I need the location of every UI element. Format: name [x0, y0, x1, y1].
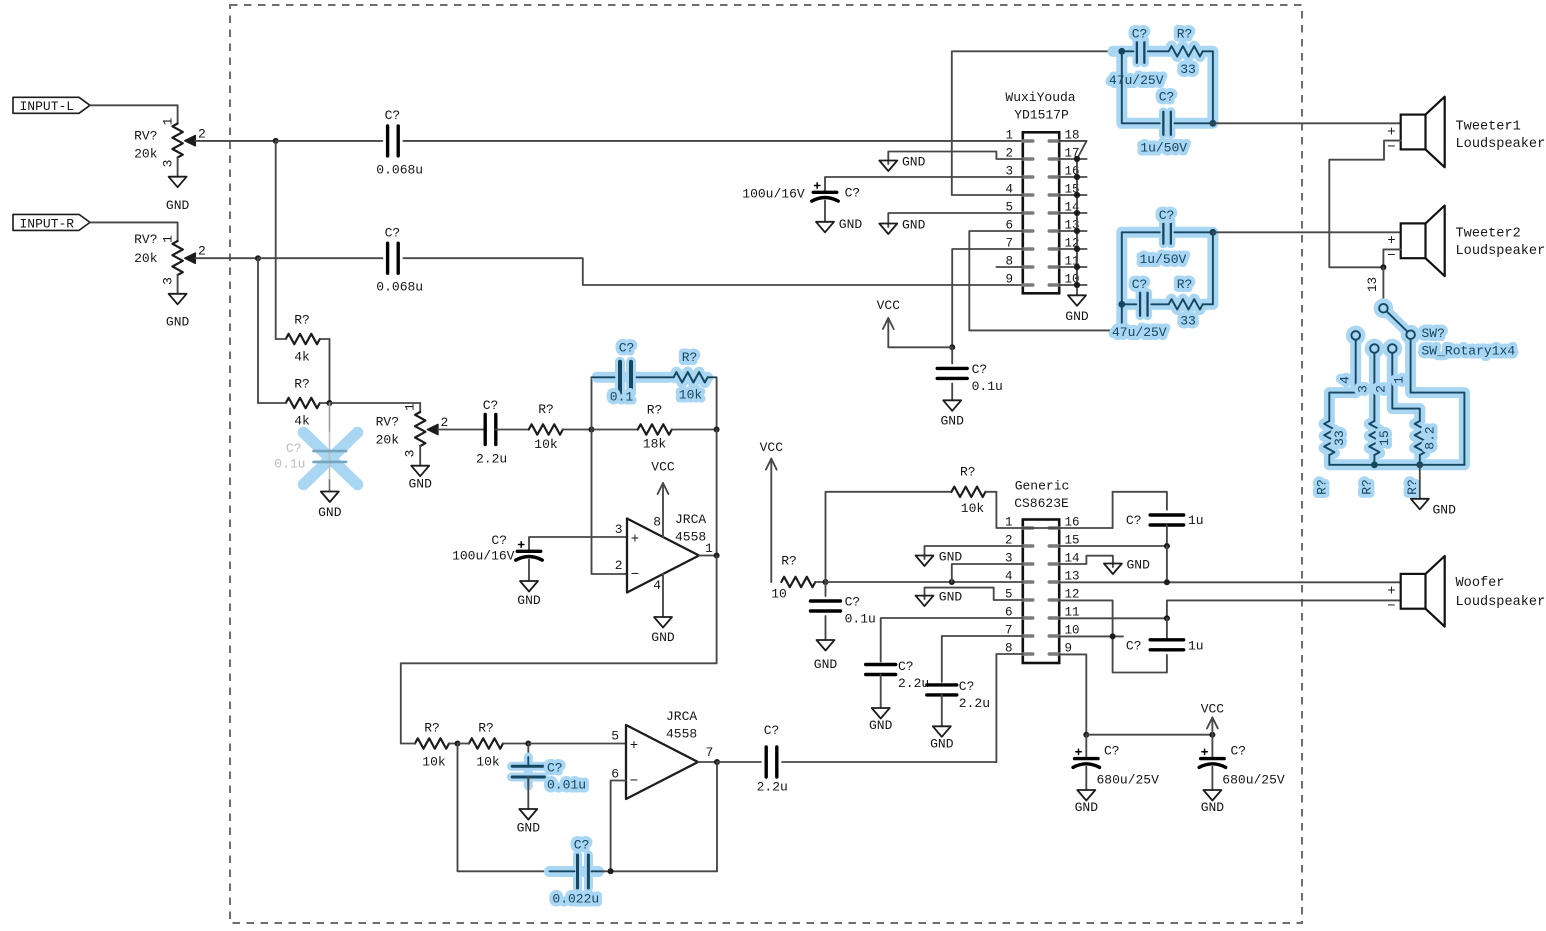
svg-text:1u/50V: 1u/50V — [1140, 141, 1187, 156]
junction C17/pin11 — [1164, 615, 1170, 621]
svg-text:10: 10 — [1065, 623, 1080, 637]
potentiometer RV2 20k (right volume) — [177, 222, 179, 241]
svg-text:GND: GND — [902, 155, 926, 170]
svg-text:+: + — [1387, 584, 1395, 600]
U2 pin 7 wire to VCC node — [952, 249, 1023, 347]
junction switch bus R10 — [1416, 461, 1423, 468]
svg-text:VCC: VCC — [760, 440, 784, 455]
capacitor C19 680u/25V — [1211, 735, 1213, 759]
svg-text:C?: C? — [1231, 743, 1247, 758]
U1A pin 8 to VCC — [662, 483, 664, 537]
capacitor C4 2.2u — [484, 415, 487, 445]
wire N2 to Tweeter2 — [1213, 231, 1401, 233]
U3 pin 2 wire to ground — [925, 546, 1023, 559]
wire U1B output to node — [698, 761, 717, 763]
svg-text:R?: R? — [960, 464, 976, 479]
wire input node down to U1A pin 2 — [592, 430, 628, 575]
svg-text:C?: C? — [764, 723, 780, 738]
wire R12 to U3 pin 1 — [996, 492, 1022, 528]
switch SW1 SW_Rotary1x4 (highlighted) — [1351, 304, 1415, 353]
U3 pin 10 stub — [1059, 635, 1123, 637]
loudspeaker LS3 Woofer — [1401, 574, 1426, 609]
wire pin15 node down to woofer node — [1166, 546, 1168, 582]
svg-text:INPUT-R: INPUT-R — [20, 216, 75, 231]
U3 pin 15 wire — [1059, 545, 1167, 547]
svg-text:C?: C? — [483, 398, 499, 413]
svg-text:33: 33 — [1332, 430, 1347, 446]
ground at RV1 pin 3 — [169, 177, 187, 188]
svg-text:R?: R? — [478, 720, 494, 735]
svg-text:4558: 4558 — [675, 529, 706, 544]
svg-text:13: 13 — [1065, 569, 1080, 583]
wire switch bus to ground — [1419, 465, 1421, 499]
ground under switch bus — [1411, 499, 1429, 510]
svg-text:10k: 10k — [534, 437, 558, 452]
svg-text:4: 4 — [1338, 376, 1353, 384]
svg-text:R?: R? — [682, 350, 698, 365]
wire node L down to R1 — [275, 141, 277, 339]
svg-text:GND: GND — [408, 477, 432, 492]
svg-text:GND: GND — [939, 550, 963, 565]
svg-text:4k: 4k — [294, 413, 310, 428]
svg-text:1: 1 — [403, 403, 418, 411]
svg-text:GND: GND — [1201, 800, 1225, 815]
wire woofer minus corner — [1167, 600, 1401, 618]
loudspeaker LS2 Tweeter2 — [1401, 223, 1426, 258]
ground at U3 pin 5 — [916, 596, 934, 607]
junction C16/pin15 — [1164, 543, 1170, 549]
svg-text:2: 2 — [1373, 385, 1388, 393]
svg-text:VCC: VCC — [877, 298, 901, 313]
capacitor C20 0.01u (highlighted) — [527, 744, 529, 762]
wire supply rail — [1086, 734, 1212, 736]
svg-text:100u/16V: 100u/16V — [742, 186, 805, 201]
U3 left pins 1-8 — [1023, 526, 1033, 529]
resistor R14 10k — [469, 738, 503, 748]
svg-text:100u/16V: 100u/16V — [452, 548, 515, 563]
junction N1 output (highlighted) — [1210, 120, 1217, 127]
svg-text:680u/25V: 680u/25V — [1097, 772, 1160, 787]
svg-text:C?: C? — [385, 108, 401, 123]
U2 left pins 1-9 — [1023, 139, 1033, 142]
U2 pin 8 stub (unconnected) — [996, 266, 1022, 268]
U2 right pins 18-10 — [1049, 283, 1059, 286]
wire C2 to U2 pin 9 — [403, 258, 1022, 285]
svg-text:7: 7 — [706, 745, 714, 760]
svg-text:1u: 1u — [1188, 513, 1204, 528]
svg-text:2.2u: 2.2u — [959, 696, 990, 711]
svg-text:Generic: Generic — [1015, 479, 1070, 494]
svg-text:−: − — [630, 774, 638, 790]
wire junction to rotary switch pin 13 — [1382, 267, 1384, 304]
svg-text:GND: GND — [869, 718, 893, 733]
svg-text:10k: 10k — [422, 755, 446, 770]
junction tweeter returns — [1380, 264, 1386, 270]
svg-text:R?: R? — [1177, 27, 1193, 42]
potentiometer RV3 20k (sub level) — [419, 403, 421, 412]
svg-text:−: − — [1387, 248, 1395, 264]
wire C8 to ground — [951, 383, 953, 400]
resistor R6 33 (highlighted) — [1169, 46, 1203, 56]
svg-text:GND: GND — [318, 505, 342, 520]
svg-text:18k: 18k — [643, 437, 667, 452]
svg-text:1: 1 — [161, 235, 176, 243]
svg-text:Woofer: Woofer — [1456, 576, 1505, 591]
U3 pin 9 wire down to supply rail — [1059, 654, 1086, 734]
svg-text:C?: C? — [1126, 639, 1142, 654]
svg-text:0.1u: 0.1u — [845, 611, 876, 626]
junction N2 bottom left (highlighted) — [1118, 301, 1125, 308]
capacitor C18 680u/25V — [1085, 735, 1087, 759]
wire N1 to Tweeter1 — [1213, 122, 1401, 124]
wire R14 node to U1B pin 5 — [528, 743, 626, 745]
wire U1A output to feedback node — [699, 555, 717, 557]
svg-text:0.01u: 0.01u — [547, 778, 586, 793]
feedback highlight halo — [597, 372, 668, 383]
svg-text:Loudspeaker: Loudspeaker — [1456, 244, 1546, 259]
svg-text:10k: 10k — [961, 501, 985, 516]
wire Tweeter2 negative to junction — [1383, 249, 1400, 267]
ground under C18 — [1077, 790, 1095, 801]
svg-text:2: 2 — [441, 415, 449, 430]
wire INPUT-L to RV1 — [90, 104, 178, 106]
svg-text:RV?: RV? — [376, 415, 399, 430]
capacitor C7 100u/16V — [813, 191, 837, 194]
ground at U2 pin 2 — [879, 161, 897, 172]
U2 pin 3 wire to C7 — [825, 177, 1023, 192]
wire C13 to ground — [825, 616, 827, 640]
feedback left leg to R13/R14 junction — [458, 744, 552, 872]
svg-text:4: 4 — [653, 578, 661, 593]
junction op-amp input node — [589, 427, 595, 433]
svg-text:R?: R? — [1177, 277, 1193, 292]
svg-text:YD1517P: YD1517P — [1014, 108, 1069, 123]
svg-text:GND: GND — [939, 590, 963, 605]
junction mix node — [327, 400, 333, 406]
U1A pin 4 to ground — [662, 574, 664, 617]
switch SW1 halo — [1329, 304, 1464, 465]
resistor R10 8.2 (highlighted) — [1415, 421, 1425, 455]
SW1 pin 4 wire (highlighted) — [1329, 340, 1355, 421]
wire U1A output down and across to R13 — [401, 556, 717, 744]
svg-text:GND: GND — [814, 657, 838, 672]
N1 left leg (highlighted) — [1122, 51, 1160, 123]
potentiometer RV1 20k (left volume) — [177, 105, 179, 123]
ground at U2 pin 5 — [879, 224, 897, 235]
svg-text:0.1u: 0.1u — [972, 379, 1003, 394]
resistor R4 10k (highlighted feedback) — [674, 372, 708, 382]
svg-text:R?: R? — [1359, 479, 1374, 495]
wire C16 bottom to pin 15 row — [1166, 525, 1168, 546]
svg-text:+: + — [630, 738, 638, 754]
junction feedback node — [714, 427, 720, 433]
svg-text:C?: C? — [972, 362, 988, 377]
deletion cross over C3 — [304, 433, 358, 485]
svg-text:6: 6 — [611, 767, 619, 782]
ground under U2 bus — [1068, 295, 1086, 306]
junction dots on U2 ground bus — [1074, 282, 1080, 288]
resistor R11 10 (supply filter) — [781, 577, 815, 587]
ground at U3 pin 2 — [916, 556, 934, 567]
svg-text:13: 13 — [1366, 277, 1380, 292]
svg-text:JRCA: JRCA — [675, 512, 706, 527]
wire C5 to R4 — [637, 376, 674, 378]
svg-text:Tweeter2: Tweeter2 — [1456, 226, 1521, 241]
U3 pin 13 wire to Woofer plus — [1059, 581, 1401, 583]
U2 pin 5 wire to ground — [888, 213, 1023, 227]
svg-text:9: 9 — [1065, 641, 1073, 655]
svg-text:C?: C? — [286, 441, 302, 456]
junction R13/R14 — [455, 741, 461, 747]
svg-text:R?: R? — [424, 720, 440, 735]
capacitor C22 2.2u (sub output coupling) — [765, 747, 768, 777]
svg-text:20k: 20k — [134, 251, 158, 266]
U3 pin 6 wire to C14 — [881, 618, 1023, 662]
svg-text:2.2u: 2.2u — [476, 452, 507, 467]
loudspeaker LS1 Tweeter1 — [1401, 115, 1426, 150]
wire input node up to feedback branch — [591, 377, 593, 429]
svg-text:C?: C? — [959, 679, 975, 694]
U3 pin 12 wire to C17 bottom — [1059, 600, 1167, 672]
junction woofer plus node — [1164, 579, 1170, 585]
junction switch bus R9 — [1371, 461, 1378, 468]
wire mix node to RV3 — [330, 402, 421, 404]
svg-text:C?: C? — [898, 659, 914, 674]
svg-text:CS8623E: CS8623E — [1014, 496, 1069, 511]
resistor R9 15 (highlighted) — [1369, 421, 1379, 455]
svg-text:47u/25V: 47u/25V — [1109, 73, 1164, 88]
svg-text:C?: C? — [845, 594, 861, 609]
junction supply rail left — [1083, 732, 1089, 738]
junction node R — [255, 255, 261, 261]
svg-text:−: − — [1387, 139, 1395, 155]
U1B pin 6 wire to feedback — [611, 781, 626, 872]
svg-text:WuxiYouda: WuxiYouda — [1005, 90, 1075, 105]
hierarchical label INPUT-L — [13, 97, 90, 113]
svg-text:0.1: 0.1 — [610, 389, 634, 404]
capacitor C21 0.022u (highlighted) — [550, 866, 599, 877]
svg-text:SW?: SW? — [1422, 326, 1445, 341]
wire ghost C3 to ground — [329, 480, 331, 492]
wire C7 to ground — [824, 201, 826, 222]
U3 pin 3 wire to node — [952, 564, 1023, 582]
ground at RV2 pin 3 — [169, 294, 187, 305]
feedback bottom wire — [602, 870, 717, 872]
capacitor C11 1u/50V (highlighted) — [1122, 231, 1160, 233]
op-amp U1B JRCA 4558 — [626, 725, 698, 799]
resistor R12 10k (to U3 pin 1) — [952, 487, 986, 497]
wire bias to U1A pin 3 — [529, 537, 627, 551]
wire C14 to ground — [880, 675, 882, 709]
wire C19 to ground — [1211, 767, 1213, 790]
junction N2 output (highlighted) — [1210, 229, 1217, 236]
power symbol VCC at U2 — [888, 318, 952, 347]
svg-text:2: 2 — [615, 558, 623, 573]
junction VCC node at U2 — [949, 344, 955, 350]
ground under C15 — [933, 726, 951, 737]
svg-text:R?: R? — [538, 402, 554, 417]
capacitor C10 1u/50V (highlighted) — [1162, 112, 1164, 135]
U3 pin 5 wire to ground — [925, 588, 1023, 600]
svg-text:20k: 20k — [134, 147, 158, 162]
ground under C6 — [520, 581, 538, 592]
svg-text:GND: GND — [1433, 502, 1457, 517]
svg-text:9: 9 — [1005, 272, 1013, 286]
svg-text:C?: C? — [1126, 513, 1142, 528]
N2 right leg (highlighted) — [1174, 232, 1213, 304]
resistor R7 33 (highlighted) — [1169, 299, 1203, 309]
svg-text:GND: GND — [940, 413, 964, 428]
svg-text:1u/50V: 1u/50V — [1140, 252, 1187, 267]
SW1 pin 3 wire (highlighted) — [1373, 353, 1375, 421]
svg-text:GND: GND — [517, 821, 541, 836]
wire Tweeter1 negative return — [1329, 141, 1400, 268]
svg-text:2.2u: 2.2u — [898, 676, 929, 691]
svg-text:1: 1 — [1391, 376, 1406, 384]
wire C20 to ground — [527, 777, 529, 809]
svg-text:R?: R? — [781, 553, 797, 568]
junction U1B pin6 tie — [608, 868, 614, 874]
svg-text:33: 33 — [1180, 62, 1196, 77]
svg-text:Loudspeaker: Loudspeaker — [1456, 595, 1546, 610]
ground under C13 — [817, 640, 835, 651]
snubber N2 halo — [1122, 227, 1160, 238]
power symbol VCC feeding R11 — [766, 459, 777, 470]
U3 right pins 16-9 — [1049, 652, 1059, 655]
svg-text:R?: R? — [647, 402, 663, 417]
svg-text:20k: 20k — [376, 432, 400, 447]
ground under C20 — [519, 809, 537, 820]
svg-text:C?: C? — [1132, 277, 1148, 292]
svg-text:VCC: VCC — [1201, 702, 1225, 717]
svg-text:Loudspeaker: Loudspeaker — [1456, 137, 1546, 152]
svg-text:R?: R? — [294, 312, 310, 327]
svg-text:11: 11 — [1065, 605, 1080, 619]
resistor R2 4k (right mix) — [286, 398, 320, 408]
svg-text:1u: 1u — [1188, 639, 1204, 654]
svg-text:GND: GND — [651, 630, 675, 645]
svg-text:8: 8 — [653, 515, 661, 530]
svg-text:4k: 4k — [294, 350, 310, 365]
wire U1B output to C22 — [717, 761, 761, 763]
svg-text:C?: C? — [1159, 208, 1175, 223]
ground at U3 pin 14 — [1104, 564, 1122, 575]
feedback right leg to output — [716, 762, 718, 871]
snubber N1 halo — [1113, 46, 1134, 57]
svg-text:2: 2 — [198, 126, 206, 141]
wire C15 to ground — [941, 695, 943, 726]
svg-text:5: 5 — [611, 728, 619, 743]
junction supply rail right — [1209, 732, 1215, 738]
wire C18 to ground — [1085, 767, 1087, 790]
ground under C14 — [872, 708, 890, 719]
capacitor C14 2.2u — [866, 663, 896, 666]
resistor R1 4k (left mix) — [286, 334, 320, 344]
svg-text:GND: GND — [1065, 309, 1089, 324]
svg-text:0.068u: 0.068u — [376, 280, 423, 295]
capacitor C2 0.068u (right channel coupling) — [386, 243, 389, 273]
svg-text:2: 2 — [198, 244, 206, 259]
capacitor C5 0.1 (highlighted feedback cap) — [592, 376, 615, 378]
U3 pin 11 wire — [1059, 617, 1167, 619]
svg-text:4558: 4558 — [666, 727, 697, 742]
svg-text:GND: GND — [902, 218, 926, 233]
junction pin10/pin12 tie — [1110, 633, 1116, 639]
svg-text:+: + — [1387, 124, 1395, 140]
svg-text:47u/25V: 47u/25V — [1112, 325, 1167, 340]
ground at U1A pin 4 — [654, 617, 672, 628]
svg-text:3: 3 — [161, 160, 176, 168]
capacitor C1 0.068u (left channel coupling) — [386, 126, 389, 156]
U2 pin 6 wire to snubber N2 — [969, 231, 1122, 330]
junction N1 input (highlighted) — [1118, 48, 1125, 55]
IC U3 Generic CS8623E body — [1023, 520, 1059, 664]
junction U1A output — [714, 553, 720, 559]
wire C6 to ground — [528, 560, 530, 582]
ground under C19 — [1203, 790, 1221, 801]
SW1 pin 1 wire (highlighted) — [1411, 339, 1465, 465]
capacitor C8 0.1u (U2 supply decoupling) — [951, 347, 953, 363]
junction pin3-pin4 tie — [949, 579, 955, 585]
U2 pin 2 wire to ground — [888, 152, 1023, 165]
junction R14/C20 — [525, 741, 531, 747]
svg-text:R?: R? — [1314, 479, 1329, 495]
hierarchical label INPUT-R — [13, 214, 90, 230]
svg-text:+: + — [1387, 233, 1395, 249]
junction filtered VCC node — [823, 579, 829, 585]
capacitor C9 47u/25V (highlighted) — [1122, 50, 1134, 52]
capacitor C6 100u/16V (bias decoupling) — [517, 550, 541, 553]
resistor R5 18k (feedback) — [592, 429, 638, 431]
svg-text:3: 3 — [403, 450, 418, 458]
U3 pin 14 wire to ground — [1059, 556, 1113, 567]
svg-text:R?: R? — [1405, 479, 1420, 495]
wire C22 to U3 pin 8 — [782, 761, 996, 763]
svg-text:GND: GND — [166, 198, 190, 213]
wire C4 to R3 — [496, 429, 529, 431]
U2 pin 4 wire up to snubber N1 — [952, 51, 1122, 195]
svg-text:RV?: RV? — [134, 232, 157, 247]
SW1 pin 2 wire (highlighted) — [1392, 353, 1420, 421]
power symbol VCC at U1A — [658, 483, 669, 494]
svg-text:C?: C? — [1104, 743, 1120, 758]
N1 right leg (highlighted) — [1174, 51, 1213, 123]
svg-text:GND: GND — [930, 736, 954, 751]
sheet boundary (dashed border) — [230, 5, 1302, 923]
U3 pin 8 wire from C22 — [996, 654, 1022, 762]
svg-text:0.022u: 0.022u — [552, 891, 599, 906]
svg-text:C?: C? — [491, 533, 507, 548]
svg-text:10: 10 — [771, 587, 787, 602]
U3 pin 16 wire to C16 top — [1023, 527, 1113, 529]
N2 left leg (highlighted) — [1121, 232, 1123, 329]
resistor R13 10k — [415, 738, 449, 748]
svg-text:GND: GND — [1127, 558, 1151, 573]
svg-text:680u/25V: 680u/25V — [1222, 772, 1285, 787]
capacitor C12 47u/25V (highlighted) — [1122, 303, 1137, 305]
svg-text:3: 3 — [1356, 385, 1371, 393]
svg-text:12: 12 — [1065, 587, 1080, 601]
svg-text:0.1u: 0.1u — [274, 457, 305, 472]
svg-text:33: 33 — [1180, 313, 1196, 328]
svg-text:3: 3 — [161, 277, 176, 285]
svg-text:C?: C? — [574, 837, 590, 852]
wire node to U3 pin 4 — [826, 581, 1023, 583]
capacitor C3 0.1u (deleted, ghost) — [329, 403, 331, 432]
resistor R8 33 (highlighted) — [1324, 421, 1334, 455]
svg-text:GND: GND — [839, 217, 863, 232]
svg-text:1: 1 — [1005, 128, 1013, 142]
